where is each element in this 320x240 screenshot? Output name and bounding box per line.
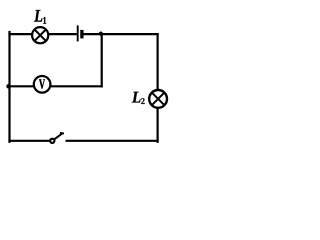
label L1 (34, 10, 46, 24)
wire: voltmeter branch horizontal (10, 85, 103, 87)
wire: right vertical top part (157, 33, 159, 90)
wire: bottom segment from switch to left corner (8, 140, 50, 142)
wire: right vertical bottom part (157, 108, 159, 143)
wire: left vertical (8, 31, 10, 143)
wire: top segment from battery through junction to right corner (83, 33, 158, 35)
junction node on left wire (6, 84, 10, 88)
wire: top segment from left corner to lamp L1 (8, 33, 32, 35)
wire: bottom segment from right corner to switch (66, 140, 159, 142)
battery cell: long plate (77, 25, 79, 41)
wire: top segment from lamp L1 to battery (48, 33, 77, 35)
junction node at top of voltmeter branch (99, 31, 103, 35)
wire: voltmeter branch vertical drop (101, 34, 103, 87)
switch S pivot ring (50, 139, 54, 143)
lamp L1 (32, 27, 48, 43)
label L2 (132, 92, 145, 104)
switch S lever (53, 133, 64, 140)
battery cell: short thick plate (80, 30, 83, 39)
lamp L2 (149, 90, 167, 108)
voltmeter V (34, 76, 51, 93)
